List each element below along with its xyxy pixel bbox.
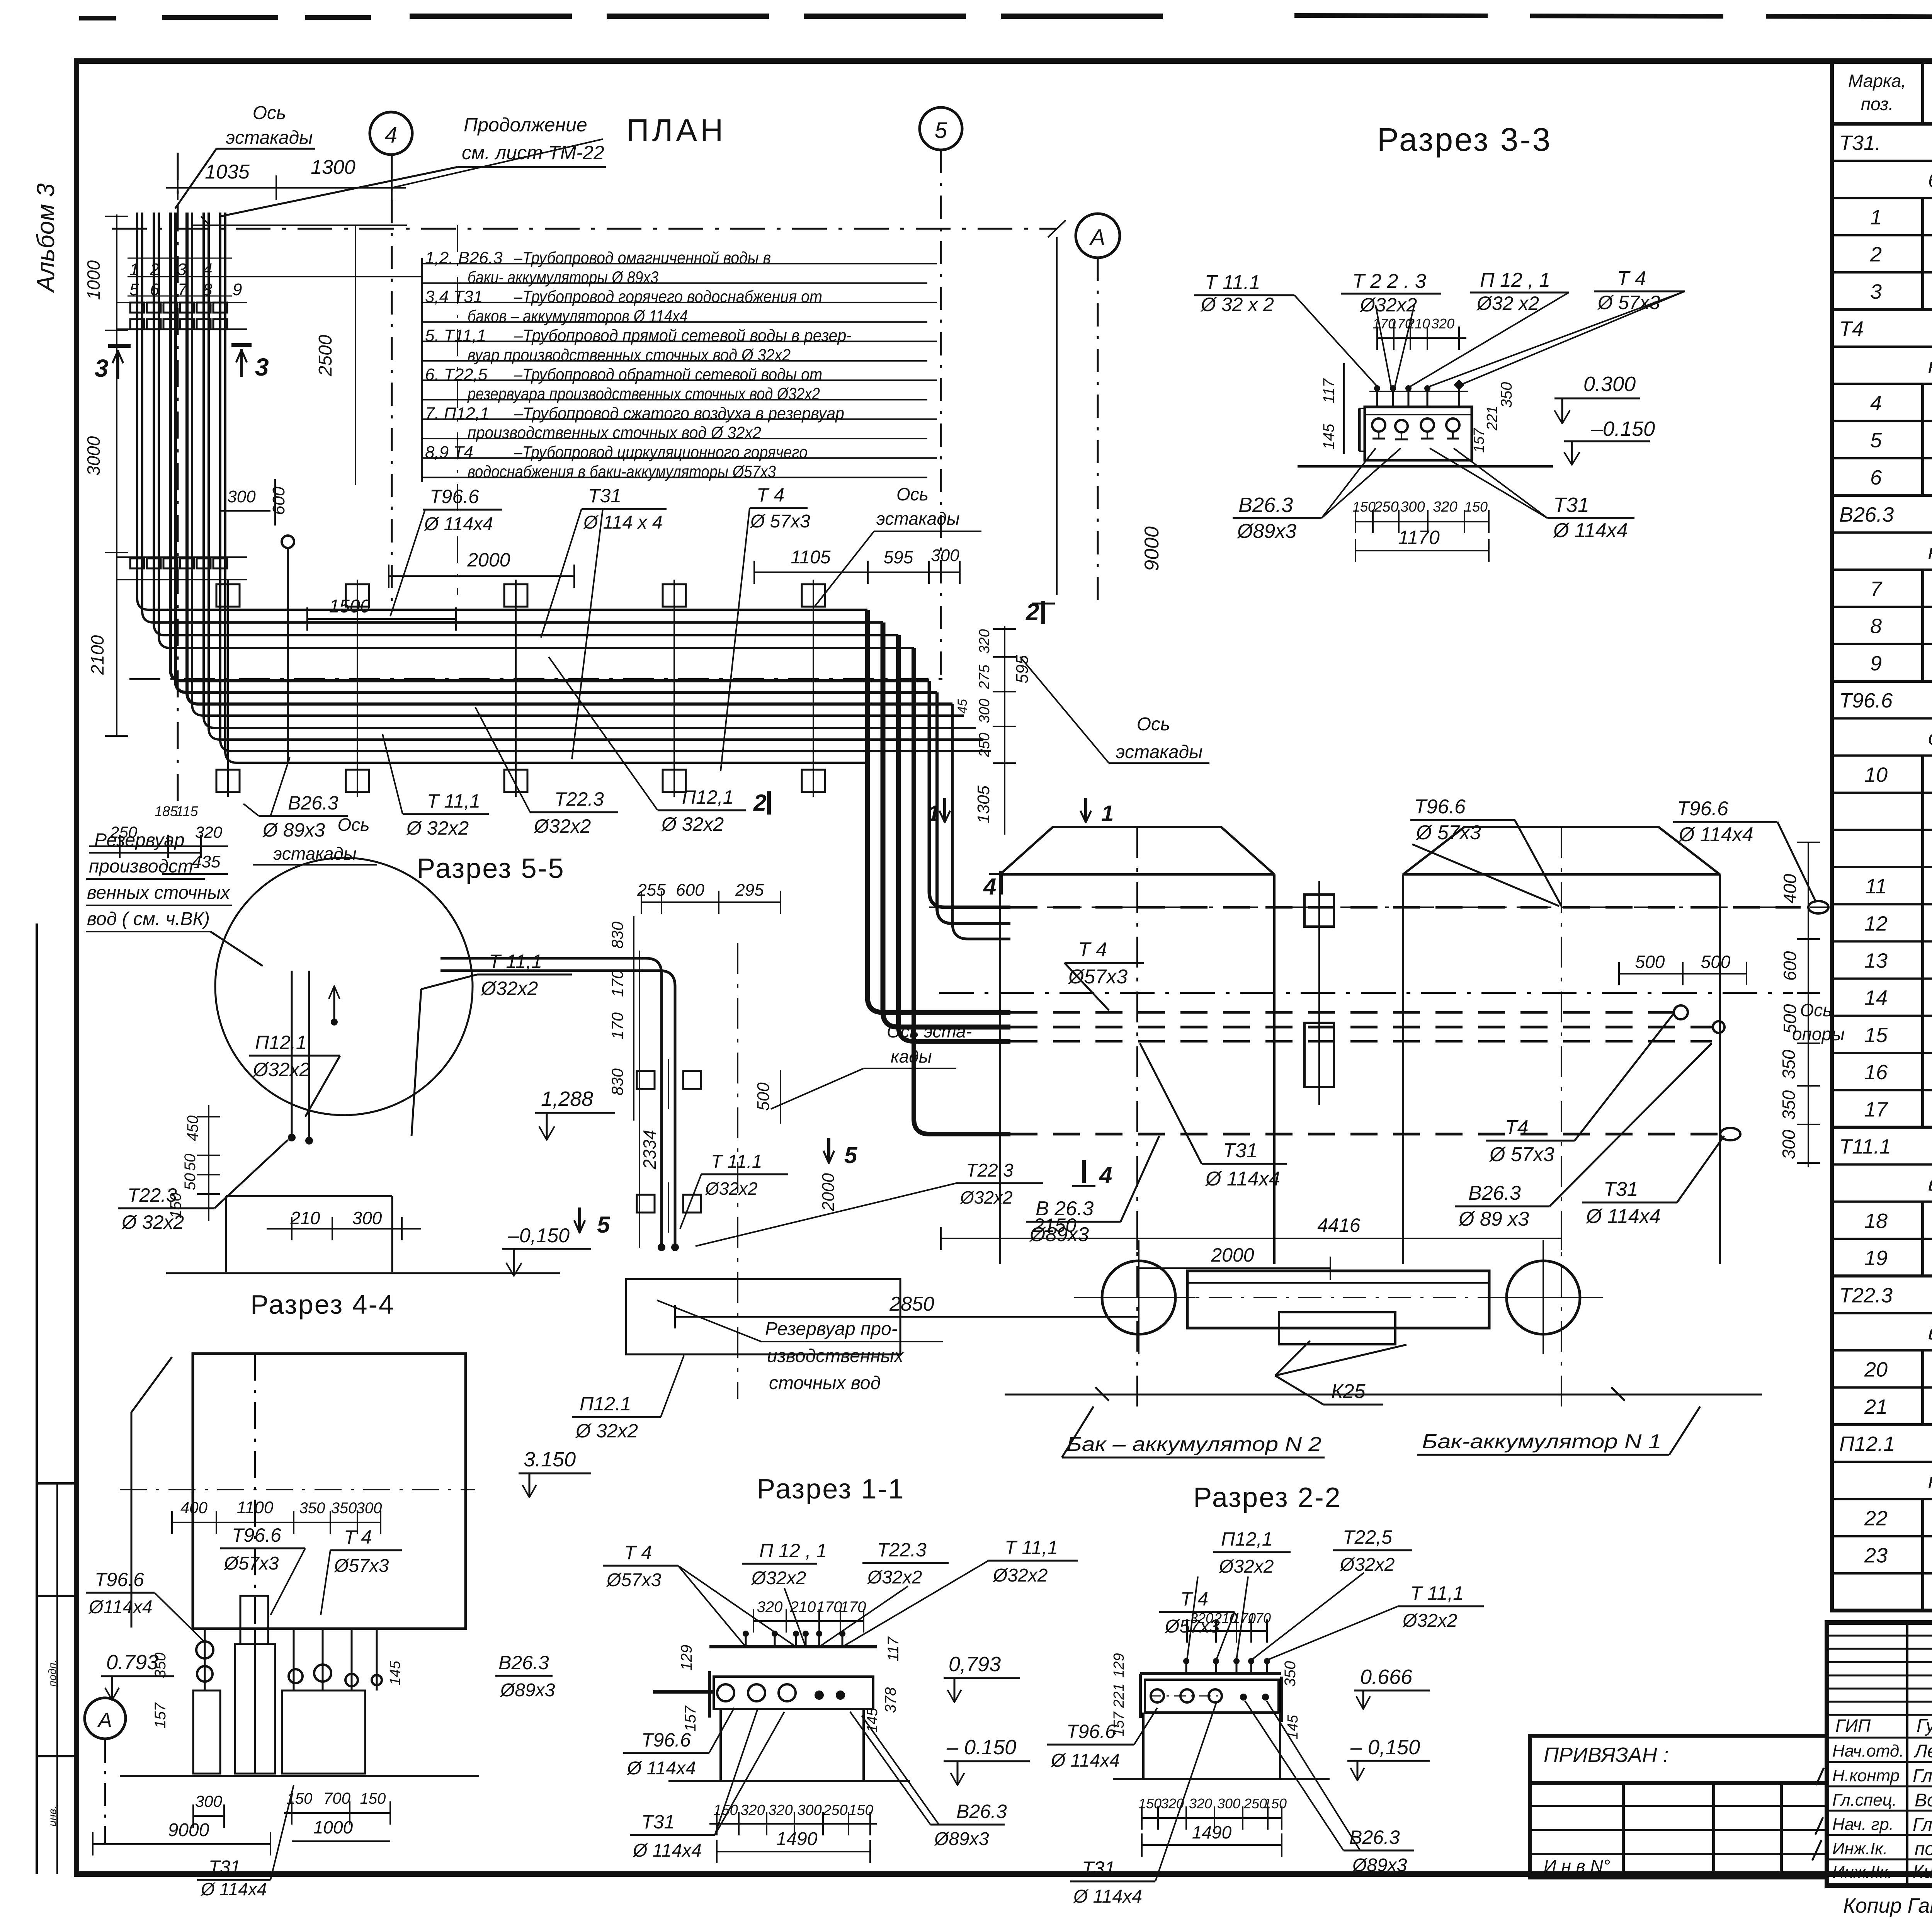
svg-text:Т96.6: Т96.6: [641, 1729, 691, 1751]
svg-text:Гусева: Гусева: [1917, 1716, 1932, 1736]
svg-text:Марка,: Марка,: [1848, 71, 1906, 91]
svg-text:Ось: Ось: [1800, 1000, 1832, 1020]
svg-text:Ø 114х4: Ø 114х4: [1050, 1750, 1120, 1771]
plan title: [626, 113, 726, 148]
mark 1.288: [535, 1087, 615, 1140]
svg-text:Ø32х2: Ø32х2: [959, 1187, 1013, 1207]
section 1-1 side dims: [678, 1636, 902, 1732]
svg-text:50: 50: [182, 1173, 199, 1190]
svg-text:221: 221: [1111, 1683, 1127, 1708]
section 3-3 dims top: [1372, 316, 1466, 350]
section 2-2 side dims: [1111, 1653, 1301, 1739]
section 1-1 title: [757, 1474, 905, 1505]
section 3-3 beam: [1359, 407, 1472, 460]
svg-text:Ø 114х4: Ø 114х4: [1073, 1886, 1142, 1907]
reservoir label: [86, 830, 263, 966]
svg-text:18: 18: [1864, 1209, 1888, 1233]
section 4-4 mark 0793: [101, 1651, 174, 1728]
pipe numbers: [128, 258, 422, 299]
svg-text:21: 21: [1864, 1395, 1888, 1418]
spec row 17: [1832, 1090, 1932, 1128]
svg-text:Ось: Ось: [253, 103, 286, 123]
tank N2 outline: [1000, 827, 1274, 1264]
label B26.3 3-3: [1233, 448, 1401, 543]
svg-text:1000: 1000: [83, 260, 104, 300]
spec section line: [1832, 354, 1932, 384]
svg-text:1490: 1490: [776, 1829, 818, 1849]
label T96.6 57x3: [1410, 796, 1561, 906]
svg-text:4: 4: [983, 874, 996, 900]
left margin strip: [37, 923, 77, 1874]
label T31 right: [1582, 1136, 1724, 1228]
bundle flanges mid: [116, 557, 247, 580]
svg-text:Т 2 2 . 3: Т 2 2 . 3: [1352, 270, 1426, 293]
label B26.3 1-1: [850, 1712, 1007, 1849]
svg-text:Т4: Т4: [1505, 1116, 1529, 1139]
svg-text:22: 22: [1864, 1507, 1888, 1530]
svg-text:Ø 114х4: Ø 114х4: [1678, 823, 1753, 846]
svg-text:435: 435: [192, 852, 221, 871]
svg-text:Ø32х2: Ø32х2: [1359, 294, 1417, 316]
svg-text:250: 250: [110, 823, 138, 841]
signature labels: [1832, 1716, 1932, 1882]
band centerline: [129, 678, 943, 680]
svg-text:Ø 57х3: Ø 57х3: [1489, 1143, 1554, 1166]
svg-text:Ø 114х4: Ø 114х4: [1205, 1168, 1280, 1190]
svg-text:Т31: Т31: [209, 1857, 241, 1878]
section 3-3 leader lines: [1294, 291, 1685, 386]
svg-text:2000: 2000: [1211, 1244, 1254, 1266]
svg-text:300: 300: [1779, 1129, 1799, 1159]
svg-text:–0,150: –0,150: [508, 1225, 570, 1247]
svg-text:Т 4: Т 4: [1617, 267, 1646, 290]
torn edge marks top: [79, 15, 1932, 19]
pipe S-bend heavy: [867, 610, 1010, 1134]
svg-text:Ø32х2: Ø32х2: [252, 1059, 310, 1080]
spec section line: [1832, 495, 1932, 532]
top dim 1035 1300: [166, 139, 603, 200]
svg-text:9: 9: [233, 280, 242, 299]
spec row 18: [1832, 1202, 1932, 1239]
svg-text:350: 350: [1282, 1661, 1299, 1687]
svg-text:В26.3: В26.3: [498, 1652, 549, 1673]
title block outer: [1827, 1622, 1932, 1886]
svg-text:450: 450: [184, 1116, 201, 1141]
spec row 23: [1832, 1536, 1932, 1574]
svg-text:П 12 , 1: П 12 , 1: [1480, 269, 1550, 291]
svg-text:Продолжение: Продолжение: [464, 114, 587, 136]
svg-text:595: 595: [884, 547, 913, 567]
svg-text:300: 300: [195, 1792, 223, 1810]
svg-text:Т31: Т31: [588, 485, 621, 507]
svg-text:венных сточных: венных сточных: [87, 883, 231, 903]
svg-text:Ø57х3: Ø57х3: [333, 1556, 389, 1576]
axis label top-left: [175, 103, 315, 209]
svg-text:–0.150: –0.150: [1591, 417, 1655, 440]
svg-text:В26.3: В26.3: [1468, 1182, 1521, 1204]
mark 0.300: [1554, 372, 1640, 423]
svg-text:Т96.6: Т96.6: [1839, 689, 1893, 712]
svg-text:1,2. В26.3: 1,2. В26.3: [425, 248, 503, 267]
svg-text:150: 150: [1264, 1796, 1287, 1811]
spec row 7: [1832, 570, 1932, 607]
svg-text:Т31.: Т31.: [1839, 131, 1881, 155]
svg-text:В26.3: В26.3: [1238, 493, 1293, 517]
spec row 8: [1832, 607, 1932, 644]
svg-text:Т 4: Т 4: [1078, 939, 1107, 961]
svg-text:5: 5: [844, 1142, 858, 1168]
svg-text:ных сточных вод: ных сточных вод: [1928, 1469, 1932, 1493]
svg-text:378: 378: [882, 1687, 899, 1713]
svg-text:В26.3: В26.3: [956, 1801, 1007, 1822]
svg-text:инв.: инв.: [46, 1806, 58, 1826]
svg-text:Ø 89 х3: Ø 89 х3: [1458, 1208, 1529, 1230]
svg-text:1,288: 1,288: [541, 1087, 593, 1111]
reservoir circle: [215, 858, 473, 1115]
svg-text:Т 4: Т 4: [344, 1526, 372, 1548]
svg-text:295: 295: [735, 881, 764, 900]
section 4-4 tank: [120, 1354, 475, 1774]
label T31 1-1: [630, 1710, 784, 1861]
spec section line: [1832, 1425, 1932, 1462]
svg-text:15: 15: [1864, 1024, 1888, 1047]
svg-text:см. лист ТМ-22: см. лист ТМ-22: [462, 142, 604, 163]
svg-text:320: 320: [757, 1599, 783, 1616]
axis opory: [939, 993, 1845, 1044]
svg-text:Ø 114х4: Ø 114х4: [200, 1879, 267, 1899]
svg-text:11: 11: [1865, 875, 1887, 898]
dim 1500: [307, 596, 456, 631]
spec section line: [1832, 1321, 1932, 1350]
top axis line: [112, 220, 1066, 237]
svg-text:Ось: Ось: [896, 484, 929, 504]
title block signature grid: [1827, 1622, 1932, 1886]
tank N2 centerline: [1136, 827, 1138, 1406]
privyazan box: [1530, 1736, 1827, 1878]
svg-text:50: 50: [182, 1154, 199, 1171]
svg-text:ПЛАН: ПЛАН: [626, 113, 726, 148]
spec row 1: [1832, 198, 1932, 235]
axis estakady x453: [178, 153, 457, 811]
svg-text:– 0.150: – 0.150: [946, 1736, 1016, 1759]
svg-text:эстакады: эстакады: [1116, 742, 1203, 762]
svg-text:2500: 2500: [315, 335, 336, 376]
svg-text:Т96.6: Т96.6: [430, 486, 479, 507]
svg-text:17: 17: [1864, 1098, 1888, 1121]
svg-text:Ø114х4: Ø114х4: [88, 1597, 153, 1617]
section 1-1 leaders: [678, 1561, 988, 1647]
svg-text:опоры: опоры: [1792, 1024, 1845, 1044]
section 3-3 pins: [1369, 379, 1468, 407]
section 5-5 pipes: [440, 958, 679, 1251]
album label: [32, 183, 60, 294]
svg-text:Ø32х2: Ø32х2: [480, 978, 538, 999]
label B26.3 2-2: [1245, 1701, 1414, 1876]
svg-text:300: 300: [797, 1802, 821, 1818]
svg-text:Ø32х2: Ø32х2: [1218, 1556, 1274, 1577]
svg-text:221: 221: [1484, 406, 1500, 430]
label P12.1 in circle: [249, 1032, 340, 1117]
section 4-4 label B26: [387, 1652, 555, 1701]
svg-text:700: 700: [323, 1789, 351, 1807]
svg-text:250: 250: [823, 1802, 847, 1818]
svg-text:600: 600: [269, 486, 288, 515]
dashed pipe B26.3 run: [1010, 1021, 1725, 1033]
grid circle 5: [920, 107, 962, 676]
svg-text:Т96.6: Т96.6: [1066, 1721, 1116, 1742]
svg-text:5. Т11,1: 5. Т11,1: [425, 326, 486, 345]
svg-text:117: 117: [885, 1636, 902, 1662]
svg-text:Ø89х3: Ø89х3: [1352, 1855, 1407, 1876]
svg-text:145: 145: [1320, 423, 1337, 449]
svg-text:Т96.6: Т96.6: [1414, 796, 1466, 818]
svg-text:1: 1: [927, 801, 940, 826]
svg-text:210: 210: [290, 1208, 320, 1228]
svg-text:14: 14: [1864, 986, 1888, 1010]
svg-text:1035: 1035: [205, 161, 250, 183]
svg-text:сточных вод: сточных вод: [769, 1373, 881, 1393]
svg-text:Т22.3: Т22.3: [554, 788, 604, 810]
svg-text:Т 11.1: Т 11.1: [1205, 271, 1260, 294]
svg-text:Т 11,1: Т 11,1: [1005, 1537, 1058, 1558]
svg-text:котла горячего водоснабжения в: котла горячего водоснабжения в баки-акку…: [1928, 540, 1932, 563]
pipe P12.1 stub: [282, 536, 294, 763]
label T31 2-2: [1070, 1702, 1216, 1907]
svg-text:Т 11.1: Т 11.1: [711, 1151, 762, 1172]
svg-text:117: 117: [1320, 378, 1337, 403]
svg-text:5: 5: [1870, 429, 1882, 452]
section 4-4 dims mid: [172, 1498, 382, 1534]
spec row 3: [1832, 272, 1932, 310]
svg-text:Т31: Т31: [1553, 493, 1589, 517]
left dim column: [83, 214, 128, 736]
svg-text:баки- аккумуляторы Ø 89х3: баки- аккумуляторы Ø 89х3: [468, 268, 658, 287]
section 5-5 axis: [738, 943, 972, 1399]
svg-text:9: 9: [1870, 652, 1882, 675]
section 1-1 beam: [709, 1631, 877, 1647]
label tank N1: [1417, 1406, 1700, 1455]
svg-text:....: ....: [48, 1531, 61, 1544]
svg-text:300: 300: [227, 487, 256, 506]
spec row 4: [1832, 384, 1932, 421]
svg-text:3: 3: [255, 353, 269, 381]
svg-text:Т96.6: Т96.6: [232, 1524, 281, 1546]
svg-text:9000: 9000: [168, 1820, 209, 1840]
svg-text:Альбом 3: Альбом 3: [32, 183, 60, 294]
svg-text:Копир Ганкова: Копир Ганкова: [1843, 1894, 1932, 1917]
reservoir label 1-1: [657, 1300, 943, 1393]
section 4-4 dims low: [93, 1785, 390, 1899]
svg-text:210: 210: [790, 1599, 816, 1616]
svg-text:Т96.6: Т96.6: [1677, 798, 1728, 820]
dashed pipe T4 run: [1010, 1005, 1688, 1019]
svg-text:–Трубопровод омагниченной во: –Трубопровод омагниченной воды в: [514, 248, 771, 267]
svg-text:4: 4: [1099, 1162, 1112, 1188]
dim 500 500: [1619, 952, 1747, 985]
spec row 19: [1832, 1239, 1932, 1276]
svg-text:1305: 1305: [974, 786, 993, 823]
svg-text:150: 150: [167, 1193, 184, 1219]
svg-text:Т 4: Т 4: [624, 1542, 652, 1563]
band supports: [216, 580, 825, 797]
section 2-2 beam: [1140, 1658, 1281, 1673]
svg-text:250: 250: [1374, 499, 1398, 515]
mark 0.666: [1354, 1665, 1430, 1709]
label T31 3-3: [1430, 448, 1634, 542]
svg-text:П12.1: П12.1: [255, 1032, 307, 1053]
spec row 22: [1832, 1499, 1932, 1536]
spec section line: [1832, 1127, 1932, 1164]
label T22.3 at 5-5: [696, 1160, 1043, 1246]
svg-text:Гладикова: Гладикова: [1913, 1815, 1932, 1835]
svg-text:Резервуар: Резервуар: [94, 830, 185, 850]
svg-text:350: 350: [1779, 1090, 1799, 1120]
spec row 10: [1832, 755, 1932, 793]
svg-text:500: 500: [1635, 952, 1665, 972]
spec row 6: [1832, 458, 1932, 496]
svg-text:350: 350: [1498, 382, 1515, 408]
mark minus0150 left: [502, 1225, 591, 1276]
dim 300 600 riser: [220, 479, 288, 526]
svg-text:эстакады: эстакады: [226, 128, 313, 148]
svg-text:13: 13: [1864, 949, 1888, 973]
dim 2000 plan: [389, 549, 574, 588]
svg-text:300: 300: [1400, 499, 1425, 515]
svg-text:2000: 2000: [467, 549, 510, 571]
spec section line: [1832, 1276, 1932, 1313]
label B26.3 right: [1455, 1043, 1712, 1230]
svg-text:Гл.спец.: Гл.спец.: [1832, 1791, 1897, 1810]
svg-text:Т22.3: Т22.3: [877, 1539, 927, 1561]
svg-text:2334: 2334: [639, 1130, 660, 1170]
svg-text:7: 7: [1870, 578, 1883, 601]
riser top tick line: [193, 216, 407, 226]
svg-text:9000: 9000: [1141, 526, 1163, 571]
check marks: [1812, 1768, 1824, 1861]
svg-text:3: 3: [1870, 280, 1882, 303]
svg-text:А: А: [97, 1709, 112, 1732]
svg-text:Нач. гр.: Нач. гр.: [1832, 1815, 1894, 1834]
left small dims: [89, 803, 228, 874]
label tank N2: [1062, 1406, 1325, 1458]
section 3-3 left dims: [1320, 363, 1515, 454]
svg-text:145: 145: [387, 1660, 403, 1685]
section 1-1 labels: [603, 1537, 1078, 1590]
svg-text:2150: 2150: [1033, 1214, 1076, 1236]
svg-text:Ø32х2: Ø32х2: [533, 815, 591, 837]
svg-text:Ø 114 х 4: Ø 114 х 4: [583, 512, 663, 533]
svg-text:Т31: Т31: [641, 1811, 675, 1833]
svg-text:2850: 2850: [889, 1293, 934, 1315]
spec row 5: [1832, 421, 1932, 458]
reservoir foundation: [166, 1196, 560, 1273]
svg-text:150: 150: [1464, 499, 1488, 515]
section 1-1 dims top: [753, 1599, 866, 1633]
section 2-2 dims top: [1187, 1610, 1271, 1643]
svg-text:157: 157: [1471, 427, 1487, 452]
label B26.3 left-low: [1026, 1136, 1159, 1246]
svg-text:П 12 , 1: П 12 , 1: [759, 1540, 827, 1561]
right dim column: [1797, 842, 1820, 1167]
svg-text:157: 157: [682, 1705, 699, 1731]
svg-text:Ø32х2: Ø32х2: [1339, 1554, 1395, 1575]
svg-text:Ø 57х3: Ø 57х3: [750, 511, 810, 532]
svg-text:3,4 Т31: 3,4 Т31: [425, 287, 483, 306]
svg-text:320: 320: [1431, 316, 1454, 332]
label P12.1 band: [549, 657, 746, 835]
svg-text:10: 10: [1864, 764, 1888, 787]
section 2-2 title: [1193, 1482, 1341, 1513]
spec table header: [1832, 61, 1932, 124]
svg-text:поздеева: поздеева: [1915, 1839, 1932, 1859]
section 3-3 title: [1377, 121, 1552, 158]
dim 9000: [1057, 237, 1163, 595]
section 2-2 leaders: [1187, 1573, 1398, 1660]
label B26.3 band: [243, 757, 348, 841]
svg-text:производственных сточных вод: производственных сточных вод Ø 32х2: [468, 423, 761, 442]
section 4-4 ground: [120, 1775, 479, 1777]
svg-text:320: 320: [1189, 1796, 1212, 1811]
svg-text:Т31: Т31: [1223, 1139, 1258, 1162]
svg-text:350: 350: [299, 1500, 325, 1517]
svg-text:45: 45: [955, 699, 970, 714]
svg-text:Волкова: Волкова: [1915, 1790, 1932, 1811]
svg-text:500: 500: [754, 1082, 773, 1111]
svg-text:3000: 3000: [83, 436, 104, 476]
drain circle right: [1486, 1240, 1600, 1354]
svg-text:185: 185: [155, 803, 178, 819]
svg-text:вуар производственных сточны: вуар производственных сточных вод Ø 32х2: [468, 346, 791, 365]
svg-text:600: 600: [1780, 951, 1800, 981]
spec section line: [1832, 681, 1932, 718]
svg-text:20: 20: [1864, 1358, 1888, 1381]
spec section line: [1832, 726, 1932, 755]
svg-text:500: 500: [1780, 1004, 1800, 1034]
svg-text:12: 12: [1864, 912, 1888, 935]
section 3-3 labels top: [1194, 267, 1685, 316]
dim 2334: [639, 951, 660, 1248]
ground line tanks: [1005, 1387, 1762, 1401]
label T11.1 in circle: [412, 951, 572, 1136]
svg-text:115: 115: [176, 803, 198, 819]
sbend dim column: [955, 626, 1032, 835]
svg-text:1500: 1500: [329, 596, 371, 617]
dim 2500: [315, 225, 355, 485]
svg-text:129: 129: [1111, 1653, 1127, 1677]
svg-text:0.666: 0.666: [1360, 1665, 1413, 1689]
tank N1 centerline: [1561, 827, 1562, 1406]
svg-text:400: 400: [180, 1498, 208, 1517]
svg-text:Ø 114х4: Ø 114х4: [626, 1758, 696, 1779]
label T4 right: [1486, 1014, 1673, 1166]
svg-text:6: 6: [1870, 466, 1882, 489]
svg-text:Ø 114х4: Ø 114х4: [632, 1840, 702, 1861]
bundle flanges top: [116, 303, 247, 329]
svg-text:водоснабжения в баки-аккумул: водоснабжения в баки-аккумуляторы Ø57х3: [468, 462, 776, 481]
svg-text:Н.контр: Н.контр: [1832, 1766, 1900, 1785]
svg-text:170: 170: [608, 969, 626, 997]
svg-text:Разрез 3-3: Разрез 3-3: [1377, 121, 1552, 158]
band axis label: [253, 815, 377, 865]
svg-text:3: 3: [95, 354, 109, 382]
svg-text:Ø 114х4: Ø 114х4: [1553, 519, 1628, 542]
svg-text:1105: 1105: [791, 547, 831, 568]
dashed pipe T96.6 run: [929, 901, 1828, 913]
svg-text:Инж.IIк.: Инж.IIк.: [1832, 1863, 1893, 1882]
svg-text:В26.3: В26.3: [1839, 503, 1894, 526]
svg-text:Т 11,1: Т 11,1: [427, 790, 480, 812]
svg-text:Ø 32 х 2: Ø 32 х 2: [1200, 294, 1274, 315]
